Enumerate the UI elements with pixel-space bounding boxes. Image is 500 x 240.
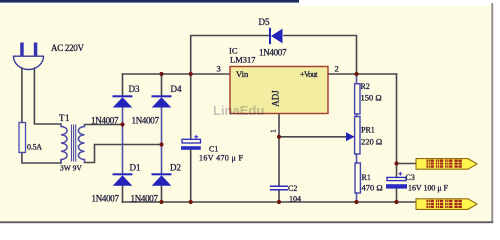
svg-text:ADJ: ADJ bbox=[271, 90, 281, 107]
svg-text:3W 9V: 3W 9V bbox=[60, 164, 82, 173]
svg-text:220 Ω: 220 Ω bbox=[361, 137, 382, 147]
svg-text:1N4007: 1N4007 bbox=[132, 116, 160, 126]
svg-text:1N4007: 1N4007 bbox=[131, 194, 159, 204]
svg-text:470 Ω: 470 Ω bbox=[362, 183, 383, 193]
svg-text:T1: T1 bbox=[59, 113, 70, 123]
svg-text:2: 2 bbox=[335, 64, 339, 74]
svg-text:R1: R1 bbox=[362, 173, 371, 182]
svg-text:1N4007: 1N4007 bbox=[91, 116, 119, 126]
svg-text:+Vout: +Vout bbox=[300, 70, 318, 79]
svg-text:C1: C1 bbox=[209, 145, 218, 154]
svg-text:C2: C2 bbox=[288, 184, 297, 193]
svg-text:0.5A: 0.5A bbox=[27, 143, 42, 152]
svg-text:16V 100 μ F: 16V 100 μ F bbox=[408, 184, 449, 193]
svg-text:Vin: Vin bbox=[236, 69, 249, 79]
svg-text:D5: D5 bbox=[259, 17, 270, 27]
svg-text:D2: D2 bbox=[170, 163, 181, 173]
svg-text:PR1: PR1 bbox=[361, 126, 375, 135]
svg-text:LinaEdu: LinaEdu bbox=[213, 103, 264, 118]
svg-text:1N4007: 1N4007 bbox=[92, 194, 120, 204]
svg-text:104: 104 bbox=[289, 195, 301, 204]
svg-text:R2: R2 bbox=[361, 82, 370, 91]
svg-text:C3: C3 bbox=[406, 173, 415, 182]
svg-text:LM317: LM317 bbox=[230, 55, 256, 65]
svg-text:D3: D3 bbox=[129, 84, 140, 94]
svg-text:D4: D4 bbox=[171, 84, 182, 94]
svg-text:D1: D1 bbox=[130, 163, 141, 173]
svg-text:1: 1 bbox=[270, 129, 278, 133]
svg-text:150 Ω: 150 Ω bbox=[361, 93, 382, 103]
svg-text:AC 220V: AC 220V bbox=[51, 43, 85, 53]
svg-text:3: 3 bbox=[217, 64, 221, 74]
svg-text:1N4007: 1N4007 bbox=[259, 48, 287, 58]
svg-text:16V 470 μ F: 16V 470 μ F bbox=[199, 154, 244, 163]
